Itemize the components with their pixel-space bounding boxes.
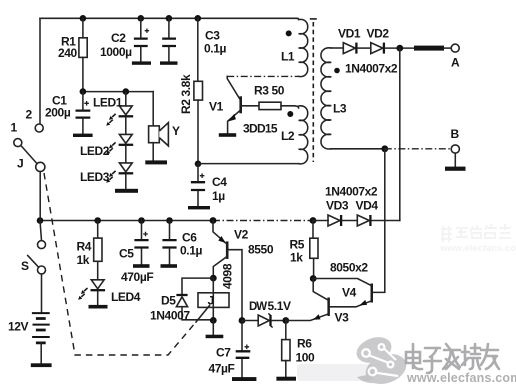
svg-text:47µF: 47µF — [209, 362, 235, 376]
node A line — [396, 45, 403, 52]
node mid rail left — [37, 217, 44, 224]
node LED row / LED1 — [123, 88, 130, 95]
svg-text:VD3: VD3 — [326, 199, 349, 213]
ground of C5 — [133, 264, 150, 268]
svg-text:VD1: VD1 — [338, 27, 361, 41]
diode VD2 — [371, 43, 383, 54]
svg-text:VD4: VD4 — [356, 199, 379, 213]
ground of C3 — [160, 61, 178, 64]
node mid rail / R4 — [94, 217, 101, 224]
resistor R1 — [79, 38, 87, 58]
resistor R6 100 — [285, 321, 287, 340]
svg-text:LED1: LED1 — [93, 96, 123, 110]
svg-text:LED2: LED2 — [80, 144, 110, 158]
phase dot L1 — [286, 30, 292, 36]
node top rail / R1 — [80, 15, 87, 22]
ground of relay — [212, 320, 214, 334]
svg-text:LED4: LED4 — [111, 290, 141, 304]
svg-text:8050x2: 8050x2 — [330, 261, 368, 275]
transformer primary winding L1 — [297, 18, 308, 76]
wire L3 bottom to node — [331, 148, 385, 150]
ground of LED4 — [89, 305, 108, 309]
svg-text:VD2: VD2 — [367, 27, 390, 41]
svg-text:R3: R3 — [254, 84, 269, 98]
terminal A — [451, 44, 459, 52]
svg-text:LED3: LED3 — [80, 170, 110, 184]
svg-text:1N4007x2: 1N4007x2 — [325, 185, 378, 199]
svg-text:12V: 12V — [8, 320, 29, 334]
wire R2 bottom to node — [197, 100, 199, 164]
watermark logo elecfans — [353, 333, 411, 390]
capacitor C5 (470uF electrolytic) — [134, 240, 148, 247]
wire B node down to V4 base — [373, 149, 385, 293]
ground of terminal B — [454, 153, 456, 166]
node top rail / C3 — [166, 15, 173, 22]
node mid rail / V2 emitter — [210, 217, 217, 224]
svg-text:C4: C4 — [212, 175, 227, 189]
ground of battery — [31, 363, 52, 367]
svg-text:www.elecfans.com: www.elecfans.com — [406, 371, 516, 385]
node R5 bottom / V3 collector / V4 collector — [310, 275, 317, 282]
diode VD4 — [357, 215, 369, 226]
fuse bar to terminal A — [414, 46, 444, 51]
wire LED row — [83, 91, 153, 93]
capacitor C7 (47uF electrolytic) — [241, 321, 243, 378]
wire top supply rail — [40, 17, 297, 19]
node L3 bottom / V4 base line — [381, 145, 388, 152]
dashed mechanical linkage relay to switch J — [44, 173, 196, 355]
terminal B — [451, 145, 459, 153]
node mid rail / C5 — [138, 217, 145, 224]
transistor V3 — [327, 298, 330, 317]
node V2 base / DW / C7 — [239, 317, 246, 324]
svg-text:www.elecfans.com: www.elecfans.com — [439, 243, 516, 254]
svg-text:1k: 1k — [290, 251, 303, 265]
relay coil J — [212, 278, 214, 320]
LED LED3 — [119, 163, 132, 172]
svg-text:3DD15: 3DD15 — [243, 122, 278, 136]
svg-text:5.1V: 5.1V — [268, 299, 291, 313]
wire VD1 to VD2 — [358, 47, 371, 49]
transistor V2 8550 — [226, 241, 229, 259]
diode D5 1N4007 — [182, 278, 213, 320]
wire J pole to mid rail — [39, 172, 41, 221]
wire node to terminal B (dash-dot) — [385, 148, 452, 150]
switch J contact 1 — [14, 139, 22, 147]
svg-text:0.1µ: 0.1µ — [180, 244, 202, 258]
wire L2 return — [198, 163, 299, 165]
relay actuator line — [196, 306, 210, 323]
LED LED4 — [97, 261, 99, 280]
resistor R2 — [194, 81, 203, 100]
ground of C6 — [161, 264, 178, 268]
node R2/C4/L2-return — [195, 161, 202, 168]
wire VD3 to VD4 — [313, 220, 357, 222]
ground of C2 — [132, 61, 151, 64]
wire R1 leads — [82, 18, 84, 91]
wire left drop from rail to contact 2 — [39, 18, 41, 124]
svg-text:DW: DW — [249, 301, 267, 313]
svg-text:470µF: 470µF — [121, 270, 153, 284]
transistor V4 — [371, 284, 374, 303]
node mid rail / C6 — [166, 217, 173, 224]
svg-text:Y: Y — [172, 124, 180, 138]
transformer core — [312, 22, 314, 162]
svg-text:50: 50 — [272, 84, 285, 98]
svg-text:V4: V4 — [342, 286, 357, 300]
diode VD3 — [328, 215, 340, 226]
node mid rail / R5 and VD3 — [310, 217, 317, 224]
diode VD1 — [343, 43, 355, 54]
resistor R4 — [97, 221, 99, 239]
svg-text:2: 2 — [26, 108, 33, 122]
mid supply rail (solid part) — [40, 220, 213, 222]
svg-text:1k: 1k — [77, 253, 90, 267]
wire L3 top to VD1 — [331, 47, 343, 49]
switch J pole — [36, 162, 45, 171]
capacitor C2 (1000u electrolytic) — [134, 39, 148, 46]
capacitor C6 (0.1u) — [162, 240, 176, 247]
transistor V1 3DD15 — [239, 96, 242, 113]
battery 12V — [32, 313, 50, 337]
speaker Y — [152, 92, 154, 126]
svg-text:A: A — [451, 56, 460, 70]
svg-text:1µ: 1µ — [212, 189, 225, 203]
svg-text:1N4007x2: 1N4007x2 — [345, 62, 398, 76]
svg-text:B: B — [451, 127, 460, 141]
wire VD2 to A node — [385, 47, 414, 49]
svg-text:D5: D5 — [161, 294, 176, 308]
resistor R5 1k — [312, 221, 314, 239]
wire VD4 to A column — [372, 220, 400, 222]
resistor R3 50 — [259, 102, 281, 109]
wire battery to ground — [40, 343, 42, 363]
node relay bottom — [210, 317, 217, 324]
transformer secondary winding L3 — [321, 48, 331, 149]
ground of C1 — [73, 134, 93, 137]
svg-text:L2: L2 — [281, 129, 295, 143]
wire V1 collector to L1 (dash-dot) — [227, 75, 298, 77]
svg-text:J: J — [17, 157, 23, 171]
svg-text:V1: V1 — [209, 100, 224, 114]
capacitor C4 (1u electrolytic) — [191, 182, 205, 190]
LED LED2 — [119, 134, 132, 143]
svg-text:1000µ: 1000µ — [100, 45, 132, 59]
watermark white patch — [297, 364, 373, 381]
svg-text:C3: C3 — [205, 29, 220, 43]
svg-text:J: J — [208, 294, 214, 308]
watermark chinese characters — [406, 344, 499, 373]
phase dot L2 — [287, 111, 293, 117]
svg-text:R6: R6 — [297, 337, 312, 351]
ground of R6 — [285, 361, 287, 377]
wire rail to R2 — [197, 18, 199, 81]
svg-text:8550: 8550 — [248, 243, 274, 257]
svg-text:C6: C6 — [182, 231, 197, 245]
svg-text:R4: R4 — [77, 240, 92, 254]
svg-text:R5: R5 — [290, 238, 305, 252]
svg-text:C5: C5 — [119, 247, 134, 261]
svg-text:100: 100 — [296, 351, 316, 365]
capacitor C1 (200u electrolytic) — [76, 111, 91, 118]
ground of C7 — [232, 377, 256, 381]
node V2 collector / relay / D5 — [210, 275, 217, 282]
svg-text:L1: L1 — [281, 50, 295, 64]
svg-text:4098: 4098 — [221, 263, 235, 289]
ground of LED3 — [115, 189, 138, 193]
svg-text:C7: C7 — [216, 346, 231, 360]
wire S to battery — [41, 274, 43, 313]
svg-text:200µ: 200µ — [45, 106, 71, 120]
wire R3 to L2 top — [281, 106, 299, 108]
capacitor C3 (0.1u) — [162, 39, 176, 46]
ground of speaker — [145, 160, 167, 164]
wire DW to R6 node — [272, 320, 286, 322]
transformer feedback winding L2 — [299, 106, 308, 164]
svg-text:240: 240 — [58, 46, 78, 60]
node top rail / C2 — [138, 15, 145, 22]
switch J contact 2 — [35, 124, 43, 132]
node top rail / R2 column — [195, 15, 202, 22]
svg-text:1: 1 — [11, 121, 18, 135]
faint watermark right middle — [439, 224, 516, 254]
svg-text:1N4007: 1N4007 — [150, 309, 190, 323]
mid supply rail (broken part) — [213, 220, 313, 222]
svg-text:L3: L3 — [333, 102, 347, 116]
svg-text:0.1µ: 0.1µ — [204, 42, 226, 56]
svg-text:R2 3.8k: R2 3.8k — [179, 74, 193, 114]
switch S — [40, 221, 42, 241]
svg-text:V3: V3 — [335, 311, 350, 325]
wire A node down to VD4 output — [399, 48, 401, 220]
zener diode DW 5.1V — [242, 320, 258, 322]
ground of C4 — [188, 206, 210, 209]
phase dot L3 — [334, 68, 340, 74]
svg-text:C2: C2 — [111, 31, 126, 45]
node LED row / C1 — [80, 88, 87, 95]
svg-text:V2: V2 — [234, 228, 249, 242]
LED LED1 — [119, 106, 132, 115]
ground of V1 emitter — [219, 133, 236, 137]
node R6 / V3 emitter — [282, 317, 289, 324]
svg-text:S: S — [21, 259, 29, 273]
